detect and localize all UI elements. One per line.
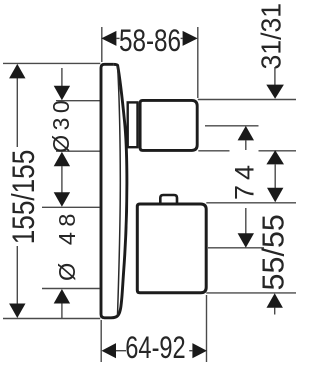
- wire: extension line lower handle top: [206, 202, 296, 204]
- wire: extension line handle bottom right segment: [259, 150, 297, 152]
- arrow 55/55 up: [267, 293, 283, 308]
- arrow diam30 up: [54, 152, 70, 167]
- wire: extension line handle bottom left segment: [198, 150, 229, 152]
- arrow diam48 down: [54, 192, 70, 207]
- arrow diam30 down: [54, 86, 70, 101]
- arrow diam48 up: [54, 289, 70, 304]
- arrow 31/31 down: [266, 85, 284, 99]
- dimension 55/55 lower shaft: [274, 308, 276, 315]
- label 64-92: [125, 330, 185, 365]
- wire: extension line 58-86 right: [197, 27, 199, 98]
- plate back edge against wall: [101, 64, 113, 317]
- wire: extension line handle top right: [198, 99, 296, 101]
- arrow 64-92 left: [102, 343, 127, 358]
- dimension 155/155 line lower segment: [16, 246, 18, 306]
- dimension 74 upper shaft: [245, 140, 247, 150]
- wire: extension line plate top (155/155 top reference): [3, 62, 100, 64]
- dimension diam48 lower shaft: [61, 304, 63, 319]
- wire: extension line diam48 bottom: [42, 288, 100, 290]
- plate top edge and outer silhouette: [111, 64, 127, 317]
- wire: extension line 58-86 left: [101, 27, 103, 62]
- label 58-86: [119, 23, 181, 58]
- wire: extension line upper handle centre: [205, 125, 259, 127]
- plate inner contour line: [118, 66, 121, 315]
- svg-text:74: 74: [230, 160, 260, 200]
- wire: extension line diam30 top: [56, 100, 100, 102]
- arrow 31/31 up partner: [266, 150, 284, 164]
- wire: extension line plate bottom (155/155 bottom reference): [3, 318, 100, 320]
- wire: extension line lower handle centre: [208, 247, 264, 249]
- dimension 74 lower shaft: [245, 208, 247, 234]
- svg-text:31/31: 31/31: [255, 3, 287, 70]
- arrow 58-86 left: [101, 31, 119, 46]
- dimension 31/31 upper shaft: [274, 67, 276, 86]
- svg-text:64-92: 64-92: [125, 330, 185, 365]
- wire: extension line diam30 bottom: [56, 150, 100, 152]
- svg-text:55/55: 55/55: [257, 214, 291, 290]
- svg-text:Ø30: Ø30: [48, 96, 74, 153]
- upper handle (temperature knob): [140, 100, 197, 150]
- label 31/31: [255, 3, 287, 70]
- dimension shaft between 31/31 and 55/55 arrows: [274, 164, 276, 190]
- upper handle collar: [128, 102, 138, 147]
- dimension shaft between diam30 and diam48: [61, 166, 63, 193]
- dimension diam30 upper shaft: [61, 68, 63, 87]
- arrow 55/55 down: [267, 188, 283, 203]
- arrow 64-92 right: [189, 343, 207, 358]
- wire: extension line lower handle bottom: [206, 292, 296, 294]
- escutcheon plate fill (side view): [101, 64, 127, 317]
- arrow 155/155 up: [9, 64, 25, 79]
- arrow 155/155 down: [9, 304, 25, 319]
- label 155/155: [7, 150, 42, 244]
- label diam48: [54, 208, 80, 281]
- arrow 74 down: [238, 233, 254, 248]
- svg-text:58-86: 58-86: [119, 23, 181, 58]
- wire: extension line diam48 top: [42, 206, 100, 208]
- label diam30: [48, 96, 74, 153]
- wire: extension line 64-92 right: [206, 295, 208, 362]
- label 55/55: [257, 214, 291, 290]
- lower handle (volume knob): [137, 204, 206, 293]
- label 74: [230, 160, 260, 200]
- arrow 74 up: [238, 126, 254, 140]
- wire: extension line 64-92 left: [100, 320, 102, 362]
- dimension 155/155 line upper segment: [16, 76, 18, 147]
- lower handle tab: [160, 195, 177, 205]
- svg-text:Ø 48: Ø 48: [54, 208, 80, 281]
- arrow 58-86 right: [181, 31, 198, 46]
- svg-text:155/155: 155/155: [7, 150, 42, 244]
